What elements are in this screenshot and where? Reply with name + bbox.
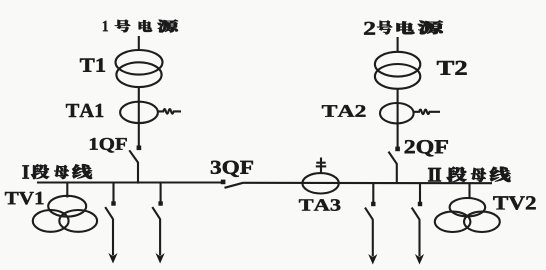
- bus: I段母线 (left busbar): [37, 181, 221, 183]
- TA2 secondary lead with squiggle: [414, 110, 440, 115]
- wire: 2QF to bus II: [396, 163, 398, 184]
- wire: bus tie through TA3 to bus II (right busbar): [244, 182, 493, 184]
- label 3QF: [211, 161, 253, 177]
- label T2: [437, 61, 467, 75]
- feeder with disconnector and outgoing arrow (bus II feeder 2): [412, 183, 424, 265]
- circuit breaker 2QF: [389, 147, 400, 164]
- wire: 1QF to bus I: [137, 162, 139, 184]
- wire: 2号电源 down to transformer T2: [397, 37, 399, 52]
- TA3 polarity mark (stem with two ticks): [316, 158, 326, 174]
- label TA2: [322, 105, 365, 117]
- circuit breaker 1QF: [129, 146, 141, 163]
- wire: 1号电源 down to transformer T1: [138, 36, 140, 51]
- transformer T1 (two-winding): [116, 50, 163, 87]
- label 2QF: [405, 140, 448, 156]
- label: bus name Ⅱ段母线: [428, 167, 510, 182]
- bus-tie circuit breaker 3QF: [221, 180, 244, 188]
- transformer T2 (two-winding): [375, 52, 420, 89]
- label: power source 1号电源: [103, 20, 178, 33]
- wire: bus II stub to voltage transformer TV2: [468, 183, 470, 199]
- label T1: [80, 58, 105, 71]
- voltage transformer TV2 (three-winding): [435, 198, 500, 232]
- label TA1: [66, 104, 103, 117]
- wire: T1 down through TA1 to breaker 1QF: [138, 88, 140, 147]
- label TV1: [5, 192, 44, 205]
- feeder with disconnector and outgoing arrow (bus I feeder 1): [105, 183, 117, 264]
- label: power source 2号电源: [364, 20, 443, 34]
- current transformer TA3 on bus tie: [302, 173, 338, 193]
- wire: bus I stub to voltage transformer TV1: [66, 183, 68, 198]
- label: bus name I段母线: [22, 164, 91, 179]
- label TA3: [299, 199, 340, 210]
- feeder with disconnector and outgoing arrow (bus I feeder 2): [152, 183, 164, 264]
- current transformer TA1: [120, 102, 158, 123]
- voltage transformer TV1 (three-winding): [33, 196, 97, 232]
- label TV2: [493, 196, 535, 209]
- feeder with disconnector and outgoing arrow (bus II feeder 1): [365, 183, 377, 265]
- label 1QF: [90, 138, 127, 153]
- current transformer TA2: [380, 103, 414, 123]
- wire: T2 down through TA2 to breaker 2QF: [397, 89, 399, 147]
- TA1 secondary lead with squiggle: [158, 109, 181, 114]
